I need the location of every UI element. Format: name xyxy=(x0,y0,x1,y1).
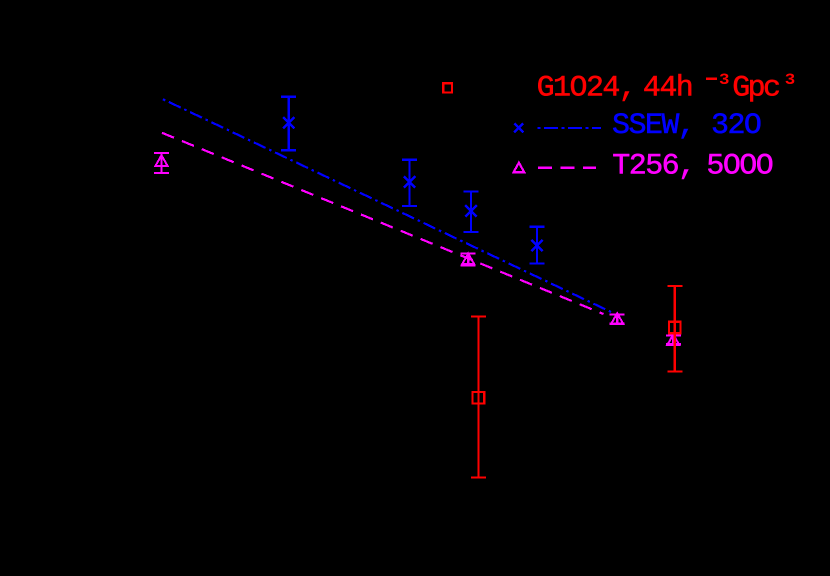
legend SSEW line sample (dash-dot) xyxy=(538,127,602,129)
G1024 point 1 error bar xyxy=(471,317,486,478)
T256 point 2 error bar xyxy=(461,254,476,266)
legend T256 marker (small open triangle) xyxy=(514,163,525,173)
svg-text:SSEW,: SSEW, xyxy=(612,109,694,143)
SSEW point 2 error bar xyxy=(402,160,417,206)
SSEW point 4 error bar xyxy=(530,227,545,264)
legend SSEW marker (x cross) xyxy=(514,123,523,132)
svg-text:5OOO: 5OOO xyxy=(706,150,772,184)
legend G1024 superscript minus xyxy=(706,78,717,81)
T256 point 4 marker xyxy=(667,334,679,345)
SSEW point 3 error bar xyxy=(464,192,479,233)
SSEW model line (blue dash-dot) xyxy=(163,99,612,312)
T256 point 1 error bar xyxy=(154,153,169,173)
SSEW point 4 marker xyxy=(531,240,542,251)
SSEW point 2 marker xyxy=(404,176,415,187)
SSEW point 1 error bar xyxy=(281,97,296,151)
G1024 point 1 marker (open square) xyxy=(473,392,485,404)
SSEW point 1 marker (x cross) xyxy=(283,117,294,128)
svg-text:T256,: T256, xyxy=(612,150,694,184)
svg-text:G1O24,: G1O24, xyxy=(537,72,636,106)
T256 point 3 marker xyxy=(611,313,623,324)
svg-text:3: 3 xyxy=(785,71,796,89)
T256 point 3 error bar xyxy=(610,315,625,324)
T256 point 1 marker (open triangle) xyxy=(156,155,168,166)
legend G1024 marker (small open square) xyxy=(443,83,452,92)
svg-text:3: 3 xyxy=(719,71,730,89)
T256 point 4 error bar xyxy=(666,336,681,345)
SSEW point 3 marker xyxy=(465,205,476,216)
G1024 point 2 error bar xyxy=(667,286,682,372)
T256 model line (magenta dashed) xyxy=(162,133,604,314)
svg-text:Gpc: Gpc xyxy=(732,72,779,106)
legend T256 line sample (dashed) xyxy=(538,167,596,169)
T256 point 2 marker xyxy=(462,254,474,265)
svg-text:44h: 44h xyxy=(643,72,692,106)
G1024 point 2 marker xyxy=(669,322,681,334)
svg-text:32O: 32O xyxy=(711,109,761,143)
